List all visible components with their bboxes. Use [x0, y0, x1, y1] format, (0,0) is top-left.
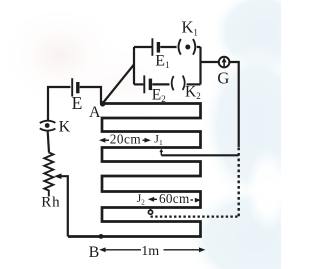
battery E: [71, 78, 73, 96]
wire G to right vertical: [229, 62, 238, 147]
svg-text:B: B: [89, 244, 100, 261]
jockey J1 arrow: [160, 151, 162, 156]
key K1: [179, 39, 181, 55]
60cm arrow right: [191, 199, 194, 201]
battery E2: [143, 75, 145, 93]
svg-text:Rh: Rh: [41, 195, 60, 211]
60cm arrow left: [154, 198, 157, 200]
wire: E loop top-left: [48, 87, 71, 120]
svg-text:A: A: [89, 104, 101, 121]
svg-text:G: G: [217, 68, 229, 87]
jockey J2 contact: [150, 209, 152, 210]
wire K2 to right edge: [187, 83, 201, 85]
20cm arrow right: [143, 139, 146, 141]
1m arrow line right: [164, 249, 200, 251]
secondary loop right edge: [199, 47, 201, 84]
1m arrow line left: [104, 249, 141, 251]
key K: [40, 121, 56, 123]
dotted vertical (alternate position): [237, 148, 239, 217]
wire K1 to right edge: [197, 46, 201, 48]
wire J1 to vertical: [161, 154, 238, 156]
svg-text:1m: 1m: [141, 244, 159, 259]
dimension arrows: [99, 138, 205, 252]
secondary loop left edge: [133, 47, 135, 84]
bottom branch wire to E2: [134, 83, 143, 85]
wire loop to galvanometer: [201, 61, 220, 63]
svg-text:60cm: 60cm: [159, 191, 190, 206]
svg-text:20cm: 20cm: [110, 131, 142, 146]
top branch wire to E1: [134, 46, 152, 48]
node A: [100, 101, 105, 106]
wire E1 to K1: [160, 46, 176, 48]
potentiometer serpentine wire A to B: [68, 104, 201, 237]
svg-text:K: K: [59, 119, 71, 136]
battery E1: [151, 38, 153, 56]
dotted horizontal to J2: [149, 215, 238, 217]
rheostat slider arrow: [60, 176, 68, 236]
galvanometer G: [219, 57, 230, 68]
wire E2 to K2: [152, 83, 169, 85]
key K2 open: [172, 76, 174, 90]
wire: E to corner down to A: [80, 87, 101, 104]
diagonal wire A to loop: [103, 65, 135, 104]
wire: K to rheostat: [48, 132, 49, 153]
node B: [99, 234, 104, 239]
20cm arrow left: [105, 139, 110, 141]
rheostat Rh zigzag: [44, 153, 53, 197]
svg-text:E: E: [72, 93, 83, 113]
